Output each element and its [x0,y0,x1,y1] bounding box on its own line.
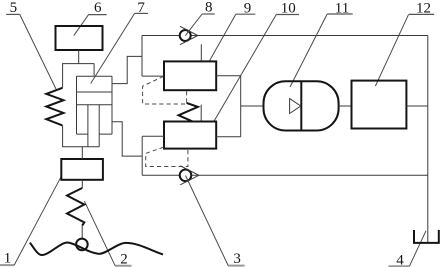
leader 7 [91,13,135,83]
check valve 8 [180,26,198,44]
pump 11 triangle [290,99,301,114]
label 4 [388,252,409,267]
wire bus to pump [241,105,264,107]
label 6 [89,0,107,16]
leader 10 [214,15,276,122]
label 8 [202,0,215,16]
cylinder 7 body [77,76,113,134]
wire rod to box 1 [81,147,83,159]
label 12 [409,1,435,17]
yoke frame top bar [63,63,95,65]
wire box 10 left port [142,135,164,137]
spring 2 [67,188,84,226]
label 9 [236,1,256,17]
label 7 [135,0,149,16]
leader 9 [209,14,236,61]
leader 5 [20,14,56,89]
wave water surface [30,243,163,256]
box 12 [352,81,407,129]
label 10 [276,1,299,17]
leader 11 [290,14,327,87]
wire rail drop [142,36,164,77]
wire spring 2 to float [81,226,83,239]
svg-text:6: 6 [94,0,102,16]
leader 3 [186,176,229,266]
box 9 [164,61,216,90]
svg-text:8: 8 [205,0,213,16]
wire pump to box 12 [339,105,352,107]
yoke frame left lower [62,125,64,147]
wire box 12 to right vertical [406,105,427,107]
pin on box 9 [200,44,202,61]
leader 6 [74,15,89,36]
wire port B step [112,122,142,156]
pin on box 10 [200,105,202,122]
svg-text:4: 4 [396,252,404,267]
svg-text:2: 2 [120,252,128,267]
wire box 1 to spring 2 [81,180,83,188]
label 11 [327,1,353,17]
tank 4 [414,230,439,243]
dashed pilot line upper [143,76,187,104]
spring 5 [46,88,63,126]
leader 4 [409,231,426,266]
svg-text:5: 5 [10,0,18,16]
box 1 [61,159,103,180]
box 6 [56,26,103,50]
label 2 [115,252,131,267]
box 10 [164,122,216,149]
svg-text:1: 1 [4,250,12,266]
pump 11 body [264,81,339,130]
dashed pilot line lower [146,147,188,166]
wire box6 to yoke [78,50,80,64]
wire top rail [142,35,428,37]
wire right vertical [427,36,429,243]
label 5 [6,0,20,16]
spring between box 9 and box 10 [179,103,198,121]
wire lower rail [142,174,428,176]
float circle 2 [76,239,88,251]
leader 1 [14,176,61,265]
wire right bus vertical [240,76,242,137]
check valve 3 [180,166,199,185]
leader 8 [185,14,202,36]
wire box 9 right port [216,75,241,77]
yoke frame right [93,64,95,76]
pump 11 divider [300,81,302,130]
label 1 [0,250,14,266]
leader 2 [84,201,115,266]
wire box 10 right port [216,136,241,138]
label 3 [228,251,244,267]
yoke frame left upper [62,63,64,88]
cylinder 7 piston rod [63,105,100,147]
leader 12 [375,15,408,86]
wire left bus vertical [141,136,143,175]
wire port A step to rail drop [112,56,142,83]
